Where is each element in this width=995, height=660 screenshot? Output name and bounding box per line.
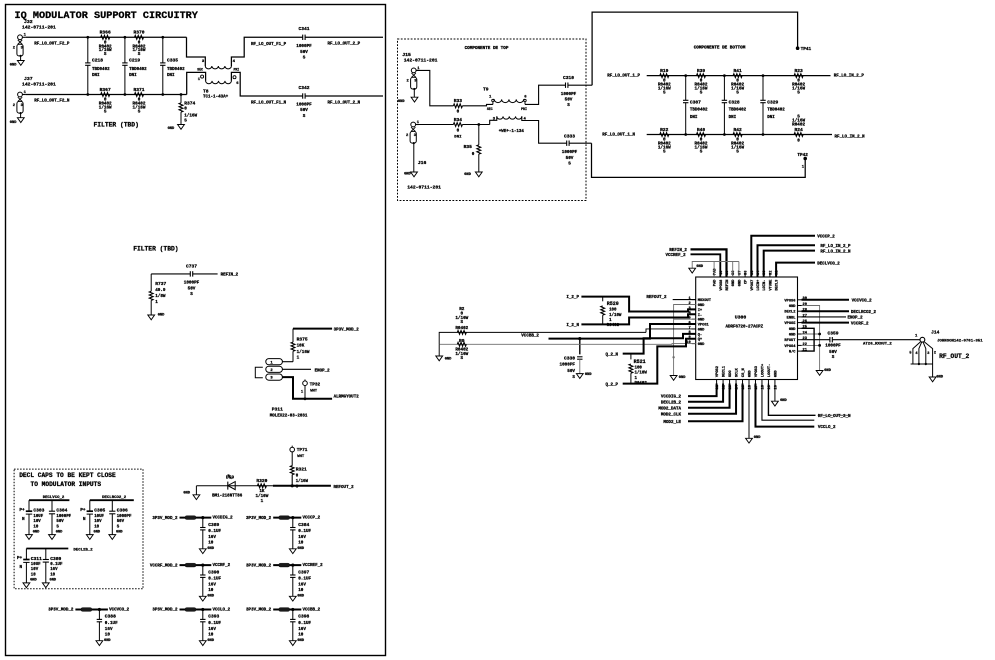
svg-text:C737: C737	[186, 263, 197, 269]
svg-text:1: 1	[261, 499, 264, 504]
svg-text:16V: 16V	[105, 627, 113, 632]
svg-text:PAD: PAD	[714, 279, 718, 286]
svg-text:1000PF: 1000PF	[561, 92, 577, 97]
svg-text:1/16W: 1/16W	[296, 479, 309, 484]
svg-text:10: 10	[50, 574, 55, 578]
svg-text:J15: J15	[402, 52, 411, 58]
svg-text:1/8W: 1/8W	[155, 294, 166, 299]
svg-text:MOD2_CLK: MOD2_CLK	[661, 413, 682, 417]
svg-text:SDO: SDO	[729, 370, 733, 377]
svg-text:R22: R22	[660, 127, 669, 133]
svg-text:C333: C333	[564, 134, 575, 140]
svg-text:TP71: TP71	[297, 448, 308, 453]
svg-text:R371: R371	[133, 87, 144, 93]
svg-text:50V: 50V	[300, 50, 308, 55]
svg-text:7: 7	[688, 326, 690, 330]
svg-text:R0402: R0402	[607, 324, 620, 328]
svg-text:RF_LO_OUT_2_P: RF_LO_OUT_2_P	[328, 43, 361, 47]
svg-text:10: 10	[298, 633, 304, 638]
svg-text:VTUNE: VTUNE	[769, 279, 773, 291]
svg-text:GND: GND	[297, 595, 304, 599]
svg-text:142-0711-201: 142-0711-201	[404, 58, 438, 64]
svg-text:I-: I-	[698, 314, 702, 318]
svg-text:S: S	[184, 119, 187, 124]
svg-text:DECLVCO_2: DECLVCO_2	[43, 496, 65, 500]
svg-text:GND: GND	[445, 357, 452, 361]
svg-text:50V: 50V	[117, 520, 125, 524]
svg-text:R23: R23	[794, 68, 803, 74]
svg-text:VCCREF_2: VCCREF_2	[303, 564, 324, 568]
svg-text:0.1UF: 0.1UF	[105, 621, 118, 626]
svg-text:WHT: WHT	[310, 389, 318, 393]
svg-text:+WE+-1-134: +WE+-1-134	[499, 130, 525, 134]
svg-text:DNI: DNI	[690, 116, 698, 120]
svg-text:GND: GND	[749, 370, 753, 377]
svg-text:GND: GND	[789, 334, 796, 338]
svg-text:R374: R374	[184, 101, 195, 107]
svg-text:TBD0402: TBD0402	[167, 68, 185, 72]
svg-text:R375: R375	[297, 336, 308, 342]
svg-text:GND: GND	[33, 530, 40, 534]
svg-text:Q_2_P: Q_2_P	[606, 384, 619, 388]
svg-text:R521: R521	[634, 359, 646, 365]
svg-text:VCCDIG_2: VCCDIG_2	[661, 396, 682, 400]
svg-text:S: S	[303, 114, 306, 119]
svg-text:C305: C305	[94, 508, 105, 514]
svg-text:C328: C328	[729, 100, 740, 106]
svg-text:AT20_RXOUT_2: AT20_RXOUT_2	[863, 342, 892, 346]
svg-text:RF_LO_OUT_F2_N: RF_LO_OUT_F2_N	[34, 100, 70, 104]
svg-text:GND: GND	[398, 100, 405, 104]
svg-text:VCCCP_2: VCCCP_2	[817, 236, 835, 240]
svg-text:R366: R366	[100, 30, 111, 36]
svg-text:GND: GND	[10, 64, 17, 68]
svg-text:10UF: 10UF	[33, 515, 43, 519]
svg-text:142-0711-201: 142-0711-201	[22, 25, 56, 31]
svg-text:J16: J16	[418, 160, 427, 166]
svg-text:10K: 10K	[297, 344, 305, 349]
svg-text:R0402: R0402	[792, 122, 805, 127]
svg-text:GND: GND	[679, 376, 686, 380]
svg-text:1/10W: 1/10W	[635, 371, 648, 376]
svg-text:VPOS7: VPOS7	[751, 280, 755, 291]
svg-text:DNI: DNI	[167, 74, 175, 78]
svg-text:24: 24	[803, 331, 808, 335]
svg-text:WHT: WHT	[297, 455, 305, 459]
svg-text:GND: GND	[30, 579, 37, 583]
svg-text:P+: P+	[19, 508, 25, 513]
svg-text:S: S	[832, 355, 835, 360]
svg-text:ADRF6720-27ACPZ: ADRF6720-27ACPZ	[725, 325, 763, 329]
svg-text:C303: C303	[33, 508, 44, 514]
svg-text:COMPONENTE DE TOP: COMPONENTE DE TOP	[465, 46, 509, 51]
svg-text:SEC: SEC	[197, 68, 203, 72]
svg-text:C389: C389	[208, 522, 219, 528]
svg-text:50V: 50V	[188, 286, 196, 291]
svg-text:10: 10	[208, 588, 214, 593]
svg-text:S: S	[700, 149, 703, 154]
svg-text:RF_LO_OUT_3_N: RF_LO_OUT_3_N	[818, 415, 851, 419]
svg-text:DECL CAPS TO BE KEPT CLOSE: DECL CAPS TO BE KEPT CLOSE	[19, 472, 116, 479]
svg-text:R24: R24	[794, 127, 803, 133]
svg-text:VPOS4: VPOS4	[784, 345, 796, 349]
svg-text:1/10W: 1/10W	[609, 313, 622, 318]
svg-text:1000PF: 1000PF	[560, 363, 576, 368]
svg-text:0.1UF: 0.1UF	[298, 529, 311, 534]
svg-text:I_2_N: I_2_N	[566, 324, 579, 328]
svg-text:C335: C335	[167, 57, 178, 63]
svg-text:22: 22	[803, 343, 807, 347]
svg-text:R35: R35	[464, 144, 473, 150]
svg-text:27: 27	[803, 314, 807, 318]
svg-text:10: 10	[33, 525, 38, 529]
svg-text:S: S	[663, 90, 666, 95]
svg-text:GND: GND	[116, 530, 123, 534]
svg-text:GND: GND	[464, 173, 471, 177]
svg-text:10: 10	[208, 541, 214, 546]
svg-text:S: S	[461, 356, 464, 361]
svg-text:S: S	[663, 149, 666, 154]
svg-text:R41: R41	[733, 68, 742, 74]
svg-text:MOD2_DATA: MOD2_DATA	[658, 407, 681, 411]
svg-text:I_2_P: I_2_P	[566, 296, 579, 300]
svg-text:16V: 16V	[208, 627, 216, 632]
svg-text:3P3V_MOD_2: 3P3V_MOD_2	[334, 329, 360, 333]
svg-text:VCCVCO_2: VCCVCO_2	[109, 609, 130, 613]
svg-text:COMPONENTE DE BOTTOM: COMPONENTE DE BOTTOM	[694, 46, 746, 51]
svg-text:VPOS1: VPOS1	[698, 324, 710, 328]
svg-text:R19: R19	[660, 68, 669, 74]
svg-text:REFOUT_2: REFOUT_2	[334, 486, 355, 490]
svg-text:GND: GND	[698, 319, 705, 323]
svg-text:S: S	[700, 90, 703, 95]
svg-text:RF_LO_IN_2_P: RF_LO_IN_2_P	[834, 74, 865, 78]
svg-text:2: 2	[688, 302, 690, 306]
svg-text:PRI: PRI	[233, 68, 239, 72]
svg-text:C359: C359	[827, 330, 838, 336]
svg-text:P+: P+	[17, 556, 23, 561]
svg-text:VPOS2: VPOS2	[716, 366, 720, 377]
svg-text:DECL2: DECL2	[784, 311, 795, 315]
svg-text:16V: 16V	[208, 583, 216, 588]
svg-text:CS_N: CS_N	[742, 368, 746, 377]
svg-text:GND: GND	[56, 530, 63, 534]
svg-text:LOIN+: LOIN+	[757, 279, 761, 291]
svg-text:3P3V_MOD_2: 3P3V_MOD_2	[152, 609, 178, 613]
svg-text:VCCCP_2: VCCCP_2	[303, 517, 321, 521]
svg-text:REFIN_2: REFIN_2	[221, 274, 239, 278]
svg-text:Q-: Q-	[698, 333, 702, 337]
svg-text:C384: C384	[298, 522, 309, 528]
svg-text:R39: R39	[697, 68, 706, 74]
svg-text:U300: U300	[735, 315, 747, 321]
svg-text:Q+: Q+	[698, 338, 703, 342]
svg-text:DNI: DNI	[729, 116, 737, 120]
svg-text:VCCLO_2: VCCLO_2	[213, 609, 231, 613]
svg-text:P+: P+	[80, 508, 86, 513]
svg-text:DNI: DNI	[454, 136, 462, 140]
svg-text:VPOS5: VPOS5	[784, 322, 796, 326]
svg-text:FILTER (TBD): FILTER (TBD)	[133, 245, 178, 252]
svg-text:TBD0402: TBD0402	[92, 68, 110, 72]
svg-text:R34: R34	[454, 117, 463, 123]
svg-text:3P3V_MOD_2: 3P3V_MOD_2	[246, 609, 272, 613]
svg-text:23: 23	[803, 337, 808, 341]
svg-text:GND: GND	[183, 492, 190, 496]
svg-text:50V: 50V	[567, 369, 575, 374]
svg-text:JOHNSON142-0701-851: JOHNSON142-0701-851	[937, 340, 983, 344]
svg-text:10: 10	[31, 574, 36, 578]
svg-text:J32: J32	[24, 19, 33, 25]
svg-text:BM1-218NTT86: BM1-218NTT86	[212, 495, 243, 499]
svg-text:ALRMGYOUT2: ALRMGYOUT2	[334, 396, 360, 400]
svg-text:GND: GND	[158, 313, 165, 317]
svg-text:1000PF: 1000PF	[296, 44, 312, 49]
svg-text:DECLRCO2_2: DECLRCO2_2	[102, 496, 127, 500]
svg-text:TP42: TP42	[797, 153, 808, 158]
svg-text:TC1-1-43A+: TC1-1-43A+	[203, 95, 229, 99]
svg-text:C219: C219	[129, 57, 140, 63]
svg-text:1000PF: 1000PF	[296, 103, 312, 108]
svg-text:S: S	[736, 149, 739, 154]
svg-text:3P3V_MOD_2: 3P3V_MOD_2	[246, 517, 272, 521]
svg-text:10: 10	[298, 588, 304, 593]
svg-text:R320: R320	[256, 478, 267, 484]
svg-text:142-0711-201: 142-0711-201	[22, 82, 56, 88]
svg-text:100: 100	[635, 366, 643, 370]
svg-text:C218: C218	[92, 57, 103, 63]
svg-text:GND: GND	[774, 370, 778, 377]
svg-text:0: 0	[457, 128, 460, 133]
svg-text:1000PF: 1000PF	[184, 280, 200, 285]
svg-text:J37: J37	[24, 76, 33, 82]
svg-text:DNI: DNI	[129, 74, 137, 78]
svg-text:C342: C342	[298, 85, 309, 91]
svg-text:36: 36	[745, 271, 749, 275]
svg-text:TBD0402: TBD0402	[729, 108, 747, 112]
svg-text:REFOUT_2: REFOUT_2	[646, 296, 667, 300]
svg-text:R321: R321	[296, 467, 307, 473]
svg-text:GND: GND	[207, 547, 214, 551]
svg-text:GND: GND	[780, 399, 787, 403]
svg-text:1000PF: 1000PF	[562, 150, 578, 155]
svg-text:S: S	[567, 103, 570, 108]
svg-text:16V: 16V	[50, 568, 58, 572]
svg-text:C388: C388	[105, 614, 116, 620]
svg-text:R42: R42	[733, 127, 742, 133]
svg-text:C330: C330	[564, 355, 575, 361]
svg-text:10V: 10V	[33, 520, 41, 524]
svg-text:GND: GND	[585, 373, 592, 377]
svg-text:3P3V_MOD_2: 3P3V_MOD_2	[48, 609, 74, 613]
svg-text:0.1UF: 0.1UF	[298, 577, 311, 582]
svg-text:VCCDIG_2: VCCDIG_2	[213, 517, 234, 521]
svg-text:29: 29	[803, 303, 807, 307]
svg-text:RF_OUT_2: RF_OUT_2	[939, 353, 969, 360]
svg-text:S: S	[572, 375, 575, 380]
svg-text:50V: 50V	[565, 98, 573, 103]
svg-text:GND: GND	[207, 595, 214, 599]
svg-text:10: 10	[105, 633, 111, 638]
svg-text:C307: C307	[690, 100, 701, 106]
svg-text:R737: R737	[155, 281, 166, 287]
svg-text:R370: R370	[133, 30, 144, 36]
svg-text:J14: J14	[931, 329, 940, 335]
svg-text:0.1UF: 0.1UF	[208, 529, 221, 534]
svg-text:Q_2_N: Q_2_N	[606, 353, 619, 357]
svg-text:REFIN: REFIN	[726, 280, 730, 291]
svg-text:S: S	[138, 52, 141, 57]
svg-text:DNI: DNI	[767, 116, 775, 120]
svg-text:DECL1: DECL1	[723, 365, 727, 377]
svg-text:N/C: N/C	[789, 350, 796, 355]
svg-text:RF_LO_OUT_F2_P: RF_LO_OUT_F2_P	[34, 42, 70, 46]
svg-text:ENOP_2: ENOP_2	[315, 369, 331, 373]
svg-text:10UF: 10UF	[94, 515, 104, 519]
svg-text:50V: 50V	[56, 520, 64, 524]
svg-text:DECL2B_2: DECL2B_2	[661, 401, 682, 405]
svg-text:3P3V_MOD_2: 3P3V_MOD_2	[152, 517, 178, 521]
svg-text:142-0711-201: 142-0711-201	[407, 185, 441, 191]
svg-text:GND: GND	[789, 328, 796, 332]
svg-text:VPOS6: VPOS6	[784, 299, 795, 303]
svg-text:0.1UF: 0.1UF	[50, 563, 63, 567]
svg-text:TBD0402: TBD0402	[129, 68, 147, 72]
svg-text:1000PF: 1000PF	[825, 343, 841, 348]
svg-text:GND: GND	[404, 172, 411, 176]
svg-text:RF_LO_OUT_1_P: RF_LO_OUT_1_P	[607, 74, 640, 78]
svg-text:GND: GND	[789, 305, 796, 309]
svg-text:GND: GND	[738, 279, 742, 286]
svg-text:5: 5	[909, 351, 911, 355]
svg-text:SEC: SEC	[487, 107, 493, 111]
svg-text:C311: C311	[31, 556, 42, 562]
svg-text:S: S	[104, 52, 107, 57]
svg-text:TO MODULATOR INPUTS: TO MODULATOR INPUTS	[31, 481, 102, 488]
svg-text:LOOUT-: LOOUT-	[768, 364, 772, 377]
svg-text:RF_LO_OUT_F1_P: RF_LO_OUT_F1_P	[251, 43, 287, 47]
svg-text:DECL2B_2: DECL2B_2	[73, 548, 93, 552]
svg-text:1/16W: 1/16W	[297, 350, 310, 355]
svg-text:C306: C306	[117, 508, 128, 514]
svg-text:R0402: R0402	[455, 326, 468, 331]
svg-text:16V: 16V	[298, 535, 306, 540]
svg-text:RF_LO_IN_2_N: RF_LO_IN_2_N	[835, 135, 866, 139]
svg-text:GND: GND	[104, 639, 111, 643]
svg-text:R40: R40	[697, 127, 706, 133]
svg-text:0.1UF: 0.1UF	[208, 621, 221, 626]
svg-text:LOIN-: LOIN-	[763, 280, 767, 291]
svg-text:S: S	[104, 109, 107, 114]
svg-text:49.9: 49.9	[155, 288, 166, 293]
svg-text:N: N	[83, 517, 86, 522]
svg-text:C393: C393	[208, 614, 219, 620]
svg-text:C398: C398	[298, 614, 309, 620]
svg-text:RF_LO_OUT_F1_N: RF_LO_OUT_F1_N	[251, 101, 287, 105]
svg-text:3: 3	[927, 352, 929, 356]
svg-text:N: N	[22, 517, 25, 522]
svg-text:S: S	[797, 90, 800, 95]
svg-text:TP41: TP41	[801, 47, 812, 52]
svg-text:S: S	[568, 161, 571, 166]
svg-text:S: S	[461, 320, 464, 325]
svg-text:S: S	[303, 55, 306, 60]
svg-text:CP: CP	[745, 279, 749, 284]
svg-text:3P3V_MOD_2: 3P3V_MOD_2	[246, 564, 272, 568]
svg-text:SCLK: SCLK	[736, 367, 740, 377]
svg-text:TBD0402: TBD0402	[767, 108, 785, 112]
svg-text:2: 2	[934, 351, 936, 355]
svg-text:C397: C397	[298, 569, 309, 575]
svg-text:C304: C304	[56, 508, 67, 514]
svg-text:D59: D59	[226, 475, 235, 481]
svg-text:DECLVCO_2: DECLVCO_2	[817, 262, 840, 266]
svg-text:VPOS3: VPOS3	[755, 365, 759, 377]
svg-text:0: 0	[457, 109, 460, 114]
svg-text:C310: C310	[563, 75, 574, 81]
svg-text:32: 32	[769, 271, 773, 275]
svg-text:GND: GND	[732, 279, 736, 286]
svg-text:R33: R33	[454, 98, 463, 104]
svg-text:VPOS8: VPOS8	[720, 279, 724, 291]
svg-text:PRI: PRI	[521, 107, 527, 111]
svg-text:TBD0402: TBD0402	[690, 108, 708, 112]
svg-text:GND: GND	[168, 127, 175, 131]
svg-text:R367: R367	[100, 87, 111, 93]
svg-text:ENBL: ENBL	[787, 316, 797, 320]
svg-text:GND: GND	[50, 579, 57, 583]
svg-text:VCCRF_2: VCCRF_2	[213, 564, 231, 568]
svg-text:FILTER (TBD): FILTER (TBD)	[94, 121, 139, 128]
svg-text:C341: C341	[298, 26, 309, 32]
svg-text:RF_LO_OUT_2_N: RF_LO_OUT_2_N	[328, 101, 361, 105]
svg-text:RF_LO_IN_2_P: RF_LO_IN_2_P	[820, 245, 851, 249]
svg-text:1000PF: 1000PF	[56, 515, 71, 519]
svg-text:I+: I+	[698, 309, 703, 313]
svg-text:VCCBB_2: VCCBB_2	[521, 335, 539, 339]
svg-text:1: 1	[297, 356, 300, 361]
svg-text:GND: GND	[936, 376, 943, 380]
svg-text:GND: GND	[824, 369, 831, 373]
svg-text:DECLRCO2_2: DECLRCO2_2	[851, 311, 877, 315]
svg-text:10: 10	[94, 525, 99, 529]
svg-text:P311: P311	[272, 407, 283, 413]
svg-text:GND: GND	[698, 328, 705, 332]
svg-text:ENOP_2: ENOP_2	[848, 317, 864, 321]
svg-text:TP32: TP32	[310, 382, 321, 387]
svg-text:T8: T8	[203, 88, 209, 94]
svg-text:1: 1	[155, 300, 158, 305]
svg-text:16V: 16V	[208, 535, 216, 540]
svg-text:C390: C390	[208, 569, 219, 575]
svg-text:0.1UF: 0.1UF	[298, 621, 311, 626]
svg-text:GND: GND	[698, 343, 705, 347]
svg-text:R9: R9	[459, 338, 465, 344]
svg-text:C380: C380	[50, 556, 61, 562]
svg-text:S: S	[138, 109, 141, 114]
svg-text:GND: GND	[10, 121, 17, 125]
svg-text:10: 10	[208, 633, 214, 638]
svg-text:RF_LO_OUT_1_N: RF_LO_OUT_1_N	[602, 133, 635, 137]
svg-text:N: N	[19, 565, 22, 570]
svg-text:REFIN_2: REFIN_2	[669, 249, 687, 253]
svg-text:50V: 50V	[300, 108, 308, 113]
svg-text:1000PF: 1000PF	[117, 515, 132, 519]
svg-text:0.1UF: 0.1UF	[208, 577, 221, 582]
svg-text:VCCBB_2: VCCBB_2	[303, 609, 321, 613]
svg-text:GND: GND	[754, 436, 761, 440]
svg-text:S: S	[190, 292, 193, 297]
